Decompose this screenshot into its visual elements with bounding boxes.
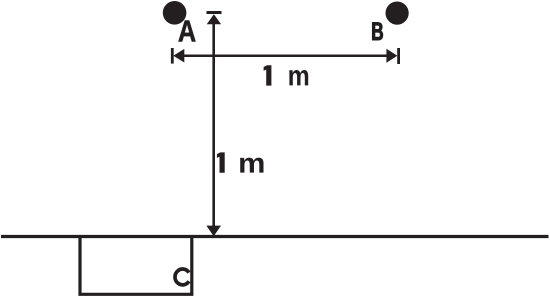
up arrowhead	[207, 14, 221, 24]
label 1 m (vertical distance): digit 1	[217, 152, 225, 172]
buried box below ground	[80, 237, 192, 294]
ground line	[1, 235, 549, 238]
vertical arrow shaft	[212, 24, 215, 226]
label B	[372, 22, 382, 40]
label C	[175, 269, 189, 285]
horizontal dimension arrow between A and B	[172, 48, 398, 64]
vertical dimension arrow from charge level to ground	[206, 13, 221, 237]
charge A (black dot)	[163, 1, 187, 25]
right arrowhead	[386, 49, 397, 63]
label 1 m (horizontal distance): letter m	[289, 70, 308, 85]
top end tick	[207, 11, 222, 14]
label 1 m (vertical distance): letter m	[240, 158, 263, 173]
charge B (black dot)	[386, 2, 409, 25]
horizontal arrow shaft	[180, 54, 392, 57]
label 1 m (horizontal distance): digit 1	[264, 65, 272, 85]
left arrowhead	[173, 49, 184, 63]
left end tick	[171, 48, 174, 64]
right end tick	[397, 48, 400, 64]
down arrowhead	[206, 226, 221, 237]
label A	[179, 21, 196, 42]
